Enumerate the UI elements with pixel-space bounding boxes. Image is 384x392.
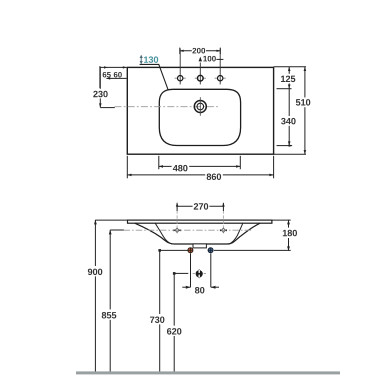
faucet hole right	[215, 48, 226, 84]
dimension 65 60 (left small dims)	[100, 66, 127, 88]
dimension 200 (faucet holes span)	[180, 47, 221, 55]
extension line slab top left (to 900)	[95, 219, 127, 221]
extension line supply level right	[214, 249, 291, 251]
waste pipe outlet (front view)	[193, 269, 206, 278]
dimension 730 (floor to supply)	[149, 249, 166, 373]
faucet hole left	[175, 48, 186, 84]
diameter label 130 (teal) with leader	[140, 55, 169, 91]
dimension 270 (fixing holes span)	[176, 202, 225, 211]
dimension 100 (middle to right hole)	[199, 56, 224, 62]
supply line left (730 corner to red tap)	[160, 249, 188, 251]
fixing hole left (front view)	[174, 205, 181, 233]
dimension 180 (slab top to supply line)	[282, 220, 298, 251]
fixing hole right (front view)	[220, 205, 227, 233]
fixing holes centerline (dash-dot, front view)	[124, 229, 252, 231]
extension line top right (rect top)	[274, 66, 306, 68]
basin outline (inner bowl, top view)	[159, 89, 240, 145]
bowl inner edge left (front view)	[155, 223, 172, 244]
dimension 480 (basin width)	[159, 162, 241, 171]
extension line slab top right (to 180)	[272, 219, 291, 221]
drain hole (top view, two concentric circles)	[194, 97, 206, 116]
dimension 860 (total width)	[127, 171, 273, 180]
dimension 855 (floor to fixing holes)	[101, 230, 124, 373]
centerline (dash-dot through drain, top view)	[115, 106, 220, 108]
extension line rect bottom right	[274, 153, 306, 155]
extension lines basin bottom (480)	[159, 156, 241, 169]
dimension 620 (floor to waste)	[166, 272, 188, 373]
cold water supply (blue)	[208, 248, 213, 253]
dimension 510 (total depth)	[295, 67, 312, 155]
ground line	[76, 371, 340, 374]
faucet hole middle	[195, 63, 206, 85]
hot water supply (red)	[188, 248, 193, 253]
extension lines rect bottom (860)	[127, 156, 273, 179]
dimension 125 (top edge to basin top)	[280, 67, 297, 89]
dimension 900 (floor to rim)	[87, 220, 104, 373]
slab (countertop front profile)	[128, 220, 272, 223]
countertop outline (860x510 top view)	[127, 67, 273, 154]
dimension 340 (basin height, top view)	[280, 89, 297, 146]
bowl outer silhouette (front view)	[135, 223, 260, 244]
dimension 80 (supply spacing)	[182, 253, 219, 293]
extension line basin bottom right	[277, 144, 293, 147]
dimension 230 (top edge to drain centerline)	[92, 67, 115, 107]
extension line basin top right	[277, 88, 292, 90]
drain trap box (front view)	[193, 244, 206, 248]
bowl inner edge right (front view)	[229, 223, 243, 244]
